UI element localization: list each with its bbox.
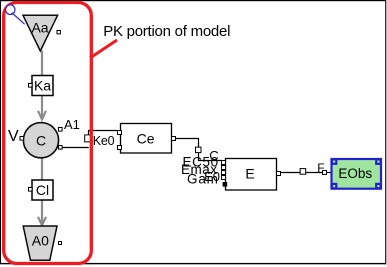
wire Ce to junction to E [176,139,222,161]
box E [226,159,277,191]
gray arrow Cl to A0 (with arrowhead) [38,200,46,225]
port A1 of circle [59,128,63,132]
svg-text:A0: A0 [32,233,49,249]
corner handle EObs top-left [331,158,338,165]
port of Cl [29,188,33,192]
svg-text:V: V [8,128,19,145]
svg-text:Aa: Aa [31,20,48,36]
gray arrow Ka to C (with arrowhead) [38,96,46,120]
wire C to junction [62,131,118,148]
port Gam of E (filled) [223,182,228,187]
corner handle EObs bottom-right [375,183,382,190]
corner handle EObs bottom-left [331,183,338,190]
wire E to junction to EObs [281,172,332,174]
svg-text:EObs: EObs [338,166,372,181]
box Cl [32,180,53,200]
box EObs [332,159,382,189]
port C of E [222,161,226,165]
corner handle EObs top-right [375,158,382,165]
port V of circle [20,137,24,141]
box Ka [32,76,53,96]
port Ke0 of Ce [118,131,122,135]
window frame top edge [0,0,386,1]
box Ce [121,124,172,154]
svg-text:Ke0: Ke0 [93,134,115,148]
blue annotation dot [12,13,14,15]
port of Aa [57,31,60,34]
svg-text:Ka: Ka [34,78,51,94]
triangle Aa [23,15,58,51]
port Emax of E [222,171,226,175]
port of Ka [29,84,33,88]
gray arrow Aa to Ka [41,51,43,77]
svg-text:A1: A1 [64,117,80,132]
port of A0 [59,242,62,245]
svg-text:Ce: Ce [137,131,155,147]
junction square J2 [196,147,202,153]
gray arrow C to Cl [41,158,43,181]
window frame left edge [0,0,1,264]
svg-text:Gam: Gam [187,172,219,187]
junction square J1 [85,135,92,142]
port of EObs [323,171,327,175]
svg-text:E: E [245,166,254,182]
window frame right edge [385,0,386,264]
svg-text:C: C [36,132,46,148]
window frame bottom edge [0,263,386,264]
red callout line [90,40,117,58]
blue annotation circle [6,5,15,15]
port out of Ce [172,137,176,141]
port E0 of E [222,176,226,180]
blue annotation line [13,14,24,24]
junction square J3 [300,169,306,175]
circle C (central compartment) [23,123,58,158]
svg-text:Cl: Cl [36,182,49,198]
port 2 of Ce [118,146,122,150]
port EC50 of E [222,166,226,170]
port out of circle [59,146,63,150]
port out of E [277,172,281,176]
red annotation rounded rectangle (PK portion) [4,3,92,264]
trapezoid A0 (elimination) [23,226,57,260]
svg-text:PK portion of model: PK portion of model [103,23,230,40]
